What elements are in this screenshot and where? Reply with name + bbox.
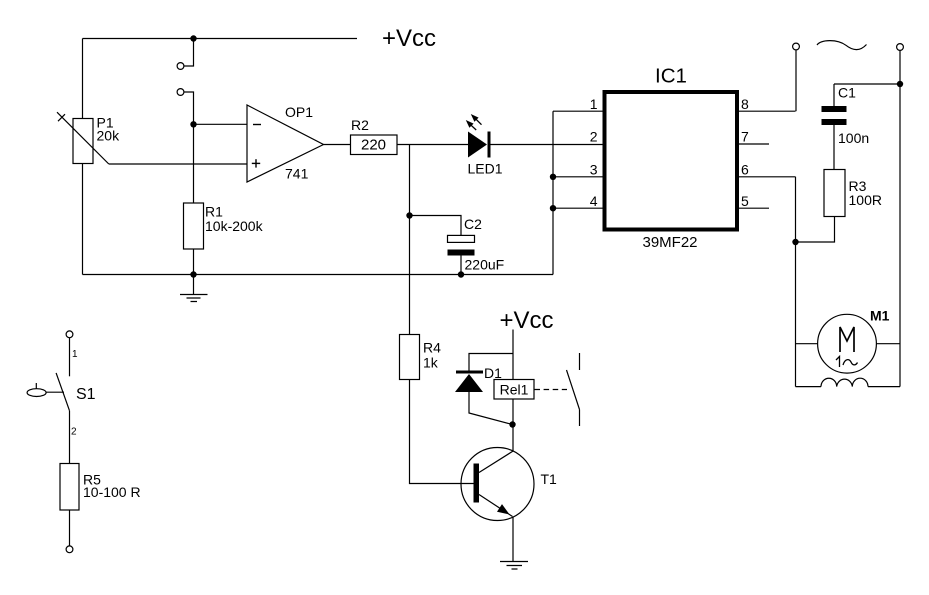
svg-text:C1: C1 [838, 85, 856, 101]
svg-text:100n: 100n [838, 130, 869, 146]
svg-text:1k: 1k [423, 355, 439, 371]
svg-text:3: 3 [590, 162, 598, 178]
svg-text:20k: 20k [97, 128, 121, 144]
svg-text:D1: D1 [484, 365, 502, 381]
svg-text:2: 2 [71, 427, 77, 438]
svg-text:7: 7 [741, 129, 749, 145]
svg-text:OP1: OP1 [285, 104, 313, 120]
svg-text:C2: C2 [464, 216, 482, 232]
svg-text:741: 741 [285, 166, 309, 182]
svg-text:220: 220 [361, 137, 386, 154]
svg-text:10-100 R: 10-100 R [83, 484, 141, 500]
svg-text:8: 8 [741, 96, 749, 112]
svg-text:100R: 100R [849, 192, 882, 208]
svg-text:S1: S1 [76, 386, 96, 403]
svg-text:1: 1 [590, 96, 598, 112]
svg-text:2: 2 [590, 129, 598, 145]
svg-text:IC1: IC1 [655, 65, 687, 88]
svg-text:39MF22: 39MF22 [642, 234, 697, 251]
svg-text:6: 6 [741, 162, 749, 178]
svg-text:10k-200k: 10k-200k [205, 218, 264, 234]
svg-text:LED1: LED1 [468, 161, 503, 177]
svg-text:R2: R2 [351, 117, 369, 133]
svg-text:1: 1 [72, 349, 78, 360]
svg-text:5: 5 [741, 193, 749, 209]
svg-text:T1: T1 [541, 471, 558, 487]
svg-text:+Vcc: +Vcc [382, 25, 436, 52]
svg-text:4: 4 [590, 193, 598, 209]
svg-text:220uF: 220uF [465, 257, 505, 273]
svg-text:Rel1: Rel1 [500, 382, 529, 398]
svg-text:+Vcc: +Vcc [500, 307, 554, 334]
svg-text:R4: R4 [423, 340, 441, 356]
svg-text:M1: M1 [870, 308, 890, 324]
